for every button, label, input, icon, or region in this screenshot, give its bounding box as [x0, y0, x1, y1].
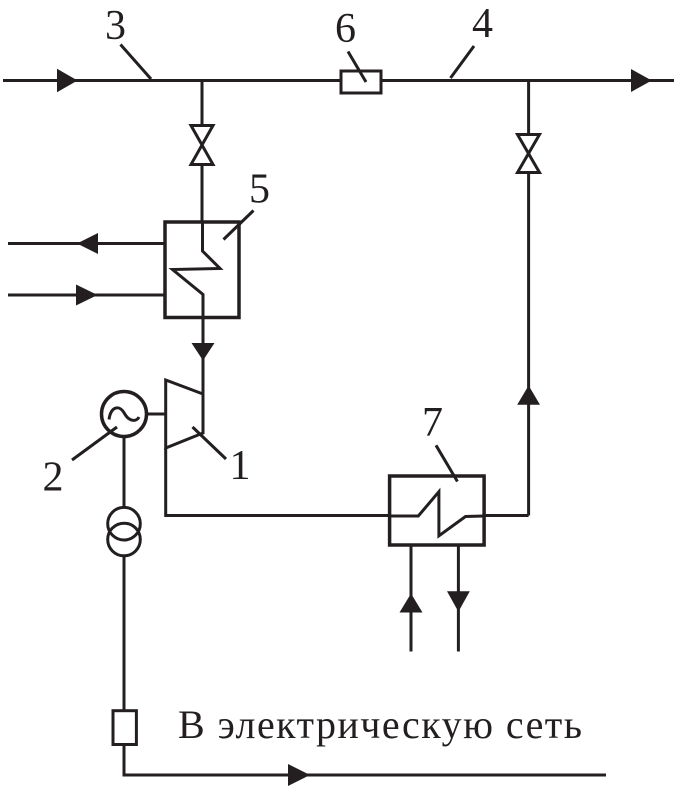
wire: top horizontal gas pipeline — [3, 79, 674, 82]
arrow: down out of HX7 — [447, 591, 470, 611]
svg-text:2: 2 — [43, 455, 64, 501]
wire: generator to transformer — [123, 437, 126, 508]
wire: transformer down to switch box — [123, 556, 126, 711]
arrow: left-pointing on top outlet — [77, 233, 98, 254]
sine wave inside generator — [109, 408, 139, 421]
svg-text:4: 4 — [472, 1, 493, 47]
heat exchanger 5 box — [165, 222, 239, 318]
wire: HX7 cooling water outlet stub — [457, 545, 460, 652]
arrow: right-pointing on bottom inlet — [76, 285, 98, 306]
svg-text:1: 1 — [230, 443, 251, 489]
leader line for label 1 — [193, 427, 227, 459]
wire: HX7 cooling water inlet stub — [410, 545, 413, 652]
valve on left branch — [191, 126, 213, 146]
leader line for label 4 — [451, 46, 475, 78]
switch box on line to grid — [113, 711, 136, 745]
arrow: downward flow into turbine — [192, 343, 215, 361]
arrow: flow out at top-right — [631, 69, 652, 92]
arrow: up into HX7 — [400, 594, 423, 613]
leader line for label 2 — [72, 427, 117, 460]
arrow: upward flow on right branch — [517, 386, 540, 405]
wire: left branch vertical (below valve) — [201, 165, 204, 223]
wire: heated medium inlet from left (bottom) — [8, 294, 165, 297]
leader line for label 5 — [224, 211, 254, 240]
wire: bottom line to electric grid — [124, 745, 606, 776]
wire: heated medium outlet to left (top) — [8, 242, 165, 245]
generator 2 circle — [102, 392, 147, 437]
valve on right branch — [518, 135, 540, 154]
leader line for label 3 — [121, 45, 152, 80]
wire: turbine exhaust down and right to HX7 — [166, 448, 390, 516]
node: rect of flow device 6 on top line — [341, 71, 381, 93]
wire: HX5 inlet line from top valve continues into box — [201, 222, 204, 251]
wire: HX7 outlet to right branch — [484, 514, 529, 517]
svg-text:5: 5 — [249, 167, 270, 213]
turbine 1 (expander trapezoid) — [166, 380, 203, 448]
leader line for label 6 — [348, 52, 366, 83]
zigzag inside heat exchanger 5 — [173, 222, 221, 318]
wire: right branch vertical (below valve down to HX7 outlet) — [527, 173, 530, 516]
wire: generator shaft connector — [146, 413, 166, 416]
arrow: flow in at top-left — [57, 69, 78, 92]
arrow: bottom line flow — [288, 764, 310, 786]
svg-text:3: 3 — [105, 3, 126, 49]
svg-text:В электрическую сеть: В электрическую сеть — [178, 702, 582, 747]
wire: right branch vertical (above valve) — [527, 81, 530, 135]
svg-text:7: 7 — [422, 400, 443, 446]
leader line for label 7 — [436, 445, 457, 481]
svg-text:6: 6 — [335, 6, 356, 52]
transformer (two overlapping circles) — [108, 507, 141, 540]
wire: from HX5 down to turbine — [202, 318, 205, 395]
wire: left branch vertical (above valve) — [201, 81, 204, 126]
heat exchanger 7 box — [390, 476, 485, 545]
zigzag inside heat exchanger 7 — [390, 492, 484, 536]
